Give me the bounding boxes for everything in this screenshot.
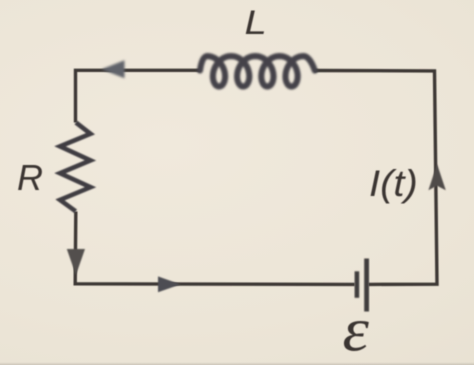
wire top-right segment — [315, 71, 438, 285]
svg-text:L: L — [245, 3, 267, 41]
svg-text:R: R — [17, 157, 43, 198]
battery tall plate — [364, 259, 369, 312]
inductor L coil — [200, 56, 315, 86]
arrow down (left wire) — [67, 249, 85, 275]
arrow right (bottom wire) — [158, 276, 181, 292]
wire top-left segment — [76, 70, 201, 122]
svg-text:I(t): I(t) — [369, 163, 418, 204]
svg-text:ε: ε — [343, 296, 370, 364]
resistor R zigzag — [60, 123, 91, 212]
battery short plate — [355, 271, 360, 298]
arrow up (right wire) — [428, 164, 445, 190]
arrow left (top wire) — [102, 60, 125, 78]
wire bottom-left segment — [75, 212, 355, 285]
